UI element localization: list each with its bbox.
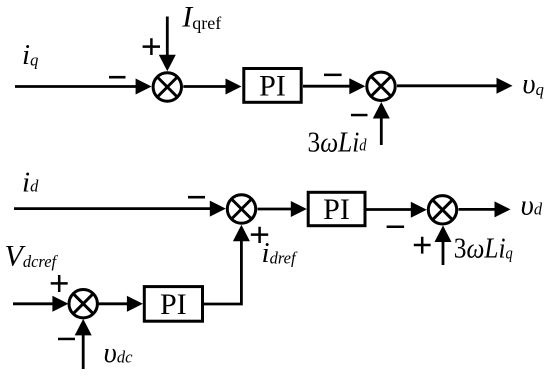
plus at S4 bottom input [414, 237, 431, 254]
block PI3 [144, 287, 202, 322]
wire 3wLid vertical into S2 [380, 116, 383, 145]
wire S1 to PI1 [183, 85, 228, 88]
wire idref vertical from corner into S3 [204, 238, 241, 304]
minus at summer S3 input [188, 196, 205, 199]
wire S5 to PI3 [98, 302, 131, 305]
minus at S2 bottom input [351, 114, 368, 117]
svg-text:PI: PI [259, 70, 286, 103]
wire S3 to PI2 [258, 208, 295, 211]
wire vdc vertical into S5 [82, 333, 85, 369]
summer S5 [69, 290, 97, 318]
plus at summer S5 input [51, 275, 68, 292]
minus at summer S1 input [109, 76, 126, 79]
wire S4 output vd [459, 208, 497, 211]
wire id input [14, 207, 211, 210]
block PI1 [244, 69, 301, 103]
minus at S5 bottom input [58, 338, 75, 341]
svg-text:3ωLiq: 3ωLiq [454, 232, 513, 264]
wire Iqref vertical input [166, 17, 169, 58]
block PI2 [308, 192, 365, 225]
summer S3 [227, 195, 255, 223]
wire Vdcref input [13, 302, 55, 305]
wire 3wLiq vertical into S4 [442, 239, 445, 265]
summer S2 [367, 72, 395, 100]
wire S2 output vq [397, 84, 498, 87]
svg-text:PI: PI [160, 288, 187, 321]
svg-text:PI: PI [323, 193, 350, 226]
minus below wire PI2-S4 [387, 226, 405, 229]
plus at summer S1 top input [143, 38, 160, 55]
minus above wire PI1-S2 [324, 74, 342, 77]
svg-text:3ωLid: 3ωLid [308, 126, 367, 158]
wire iq input [15, 85, 137, 88]
summer S1 [153, 73, 181, 101]
summer S4 [428, 196, 456, 224]
wire PI1 to S2 [303, 85, 351, 88]
wire PI2 to S4 [366, 208, 413, 211]
plus at S3 bottom input [251, 227, 268, 243]
